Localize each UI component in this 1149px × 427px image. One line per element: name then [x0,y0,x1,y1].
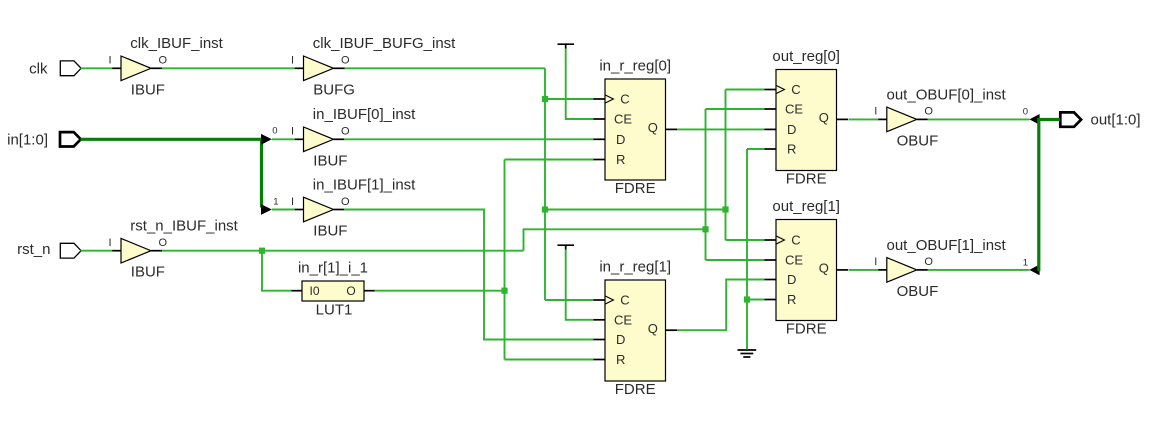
svg-text:R: R [787,292,796,307]
svg-text:R: R [787,142,796,157]
svg-text:out_reg[1]: out_reg[1] [772,198,840,215]
wire VCC to in_r_reg[1] CE [566,250,594,320]
power symbol VCC (const1) upper [558,44,575,48]
wire clk port to IBUF [81,67,113,69]
svg-text:FDRE: FDRE [615,180,656,197]
svg-text:R: R [616,152,625,167]
buffer U in_IBUF[1]_inst (IBUF) [291,176,416,239]
svg-text:D: D [787,272,796,287]
svg-text:rst_n_IBUF_inst: rst_n_IBUF_inst [130,218,238,235]
svg-text:Q: Q [819,261,829,276]
svg-text:C: C [791,233,800,248]
buffer U clk_IBUF_inst (IBUF) [108,35,223,98]
svg-text:Q: Q [648,321,658,336]
svg-text:FDRE: FDRE [615,381,656,398]
svg-text:I: I [108,55,111,67]
svg-text:O: O [924,106,933,118]
svg-text:I: I [291,196,294,208]
svg-text:0: 0 [1023,106,1028,117]
wire in_r[1]_i_1 output east [375,290,505,292]
wire GND to out_reg[1] R [747,299,765,301]
svg-text:1: 1 [1023,257,1028,268]
svg-text:clk_IBUF_BUFG_inst: clk_IBUF_BUFG_inst [313,35,456,52]
flip-flop out_reg[1] (FDRE) [765,198,849,337]
svg-text:I: I [874,256,877,268]
power symbol VCC (const1) lower [558,245,575,249]
bus tap arrow in[0] [261,134,272,145]
svg-text:rst_n: rst_n [17,241,50,258]
wire clk net vertical x545 [544,68,546,300]
bus in[1:0] trunk [81,139,262,207]
svg-text:out[1:0]: out[1:0] [1091,111,1141,128]
wire rst_n port to IBUF [81,250,113,252]
svg-text:IBUF: IBUF [313,152,347,169]
svg-text:D: D [616,132,625,147]
svg-text:Q: Q [648,120,658,135]
bus tap arrow out[1] [1029,265,1039,276]
wire clk net to out_reg[1] C [726,239,765,241]
buffer U out_OBUF[1]_inst (OBUF) [874,237,1006,300]
junction clk net at in_r_reg[0] C branch [542,96,548,102]
svg-text:clk_IBUF_inst: clk_IBUF_inst [130,35,223,52]
LUT in_r[1]_i_1 (LUT1) [292,260,375,319]
svg-text:O: O [341,55,350,67]
wire in_r_reg[1] Q to out_reg[1] D [677,280,765,331]
wire GND to out_reg[0] R [747,148,765,150]
svg-text:BUFG: BUFG [313,81,355,98]
wire in[1] tap to in_IBUF[1] [272,209,295,211]
svg-text:CE: CE [614,312,632,327]
wire rst_n_IBUF to out_reg[0] CE [706,108,765,110]
junction rst_n_IBUF at x705 y229 [702,226,708,232]
flip-flop in_r_reg[0] (FDRE) [594,58,678,197]
svg-text:I0: I0 [310,284,320,298]
wire LUT1 net to in_r_reg[1] R [505,359,594,361]
wire OBUF[0] to out bus tap [928,118,1030,120]
svg-text:O: O [924,256,933,268]
junction GND net at out_reg[1] R [744,296,750,302]
svg-text:I: I [108,237,111,249]
wire clk net to in_r_reg[1] C [545,299,594,301]
svg-text:IBUF: IBUF [313,223,347,240]
wire GND vertical x747 [746,149,748,350]
svg-text:C: C [620,293,629,308]
svg-text:CE: CE [614,112,632,127]
svg-text:IBUF: IBUF [131,81,165,98]
wire in_IBUF[0] to in_r_reg[0] D [344,138,594,140]
svg-text:O: O [159,55,168,67]
svg-text:in_IBUF[1]_inst: in_IBUF[1]_inst [313,176,416,193]
svg-text:in_r_reg[1]: in_r_reg[1] [599,259,671,276]
flip-flop out_reg[0] (FDRE) [765,48,849,187]
svg-text:in_IBUF[0]_inst: in_IBUF[0]_inst [313,106,416,123]
wire OBUF[1] to out bus tap [928,269,1030,271]
junction clk net at x725 y209 [722,206,728,212]
svg-text:in[1:0]: in[1:0] [7,131,48,148]
junction clk net branch x545 y209 [542,206,548,212]
wire rst_n_IBUF vertical x705 CE feed [705,109,707,260]
svg-text:FDRE: FDRE [786,170,827,187]
wire out_reg[0] Q to OBUF[0] [849,118,879,120]
svg-text:out_OBUF[0]_inst: out_OBUF[0]_inst [887,86,1007,103]
wire LUT1 net to in_r_reg[0] R [505,159,594,161]
svg-text:O: O [341,196,350,208]
wire in_r_reg[0] Q to out_reg[0] D [677,128,765,130]
svg-text:FDRE: FDRE [786,320,827,337]
svg-text:I: I [291,126,294,138]
svg-text:R: R [616,352,625,367]
svg-text:C: C [620,92,629,107]
buffer U clk_IBUF_BUFG_inst (BUFG) [291,35,456,98]
wire rst_n_IBUF to out regs CE [524,229,706,250]
junction LUT1 output net [501,288,507,294]
wire clk net to out_reg[0] C [726,89,765,91]
svg-text:LUT1: LUT1 [316,302,353,319]
junction rst_n_IBUF net branch to LUT1 [259,248,265,254]
buffer U in_IBUF[0]_inst (IBUF) [291,106,416,169]
input bus port in[1:0] [7,131,81,148]
svg-text:C: C [791,82,800,97]
output bus port out[1:0] [1060,111,1140,128]
svg-text:I: I [874,106,877,118]
wire out_reg[1] Q to OBUF[1] [849,269,879,271]
svg-text:O: O [346,284,355,298]
svg-text:out_OBUF[1]_inst: out_OBUF[1]_inst [887,237,1007,254]
wire in[0] tap to in_IBUF[0] [272,138,295,140]
svg-text:OBUF: OBUF [897,132,939,149]
svg-text:IBUF: IBUF [131,264,165,281]
wire clk_IBUF to BUFG [162,67,294,69]
wire rst_n_IBUF to out_reg[1] CE [706,259,765,261]
svg-text:1: 1 [273,197,278,208]
buffer U out_OBUF[0]_inst (OBUF) [874,86,1006,149]
svg-text:Q: Q [819,110,829,125]
svg-text:CE: CE [785,102,803,117]
svg-text:out_reg[0]: out_reg[0] [772,48,840,65]
svg-text:in_r_reg[0]: in_r_reg[0] [599,58,671,75]
svg-text:I: I [291,55,294,67]
svg-text:OBUF: OBUF [897,283,939,300]
bus out[1:0] trunk [1039,120,1060,272]
wire rst_n_IBUF branch to LUT1 input [262,251,292,291]
wire in_IBUF[1] to in_r_reg[1] D [344,210,594,340]
wire clk_IBUF_BUFG output east [345,67,546,69]
svg-text:O: O [159,237,168,249]
wire VCC to in_r_reg[0] CE [566,49,594,120]
flip-flop in_r_reg[1] (FDRE) [594,259,678,398]
svg-text:D: D [616,332,625,347]
svg-text:0: 0 [272,125,277,136]
bus tap arrow in[1] [261,204,272,215]
svg-text:D: D [787,122,796,137]
wire clk net branch to out regs [545,209,726,211]
wire clk net vertical x725 for out regs C [725,90,727,241]
svg-text:CE: CE [785,253,803,268]
wire clk net to in_r_reg[0] C [545,98,594,100]
wire rst_n_IBUF output east [162,250,524,252]
ground symbol GND (const0) [738,350,757,357]
input port rst_n [17,241,81,258]
svg-text:O: O [341,126,350,138]
svg-text:in_r[1]_i_1: in_r[1]_i_1 [298,260,368,277]
wire LUT1 net vertical x504 [504,160,506,360]
input port clk [29,60,81,77]
bus tap arrow out[0] [1029,114,1039,125]
svg-text:clk: clk [29,60,48,77]
buffer U rst_n_IBUF_inst (IBUF) [108,218,238,281]
